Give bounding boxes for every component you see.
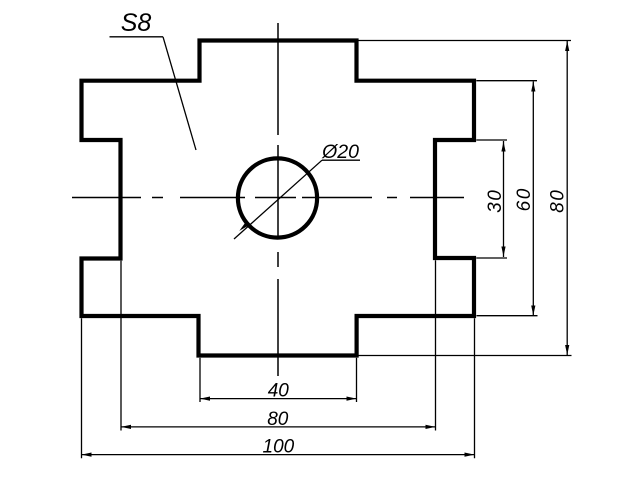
arrow dim 40 left bbox=[200, 397, 210, 401]
svg-text:40: 40 bbox=[268, 381, 290, 402]
extension line top of dim 60 bbox=[476, 80, 537, 82]
svg-text:30: 30 bbox=[485, 189, 506, 213]
dimension lines bbox=[82, 41, 568, 455]
leader arrowhead on hole circle bbox=[239, 223, 248, 231]
extension line left of dim 80 bottom bbox=[120, 261, 122, 431]
horizontal centerline bbox=[72, 197, 464, 199]
leader line Ø20 bbox=[234, 160, 360, 239]
arrow dim 80 right top bbox=[565, 41, 569, 51]
arrow dim 80 right bottom bbox=[565, 345, 569, 355]
extension line bottom of dim 80 right bbox=[358, 355, 572, 357]
arrow dim 80 bottom right bbox=[426, 425, 436, 429]
extension line right of dim 40 bbox=[356, 358, 358, 402]
dimension line 80 bottom bbox=[121, 426, 436, 428]
part outline (stepped plate) bbox=[82, 41, 475, 356]
hole circle Ø20 bbox=[238, 158, 317, 237]
extension line top of dim 80 right bbox=[357, 40, 571, 42]
vertical centerline bbox=[277, 23, 279, 376]
extension line bottom of dim 30 bbox=[476, 257, 507, 259]
arrow dim 60 top bbox=[531, 82, 535, 92]
arrow dim 100 left bbox=[82, 453, 92, 457]
dimension line 80 right bbox=[566, 41, 568, 355]
arrow dim 30 bottom bbox=[501, 247, 505, 257]
svg-text:80: 80 bbox=[548, 189, 569, 213]
dimension arrowheads bbox=[82, 41, 570, 457]
dimension line 40 bbox=[200, 398, 357, 400]
extension line bottom of dim 60 bbox=[477, 315, 538, 317]
svg-text:100: 100 bbox=[263, 437, 295, 458]
dimension line 100 bbox=[82, 454, 475, 456]
arrow dim 30 top bbox=[501, 142, 505, 152]
arrow dim 40 right bbox=[347, 397, 357, 401]
svg-text:S8: S8 bbox=[121, 9, 152, 37]
extension line left of dim 100 bbox=[81, 318, 83, 458]
dimension line 30 bbox=[503, 141, 505, 257]
svg-text:Ø20: Ø20 bbox=[321, 141, 359, 163]
dimension line 60 bbox=[532, 82, 534, 316]
arrow dim 100 right bbox=[465, 453, 475, 457]
svg-text:60: 60 bbox=[514, 187, 535, 211]
extension line right of dim 80 bottom bbox=[435, 260, 437, 430]
extension line left of dim 40 bbox=[199, 358, 201, 402]
extension line top of dim 30 bbox=[476, 139, 507, 141]
leader line S8 bbox=[110, 37, 197, 150]
arrow dim 60 bottom bbox=[531, 306, 535, 316]
extension line right of dim 100 bbox=[474, 318, 476, 458]
svg-text:80: 80 bbox=[267, 409, 289, 430]
extension lines bbox=[82, 41, 572, 459]
arrow dim 80 bottom left bbox=[121, 425, 131, 429]
